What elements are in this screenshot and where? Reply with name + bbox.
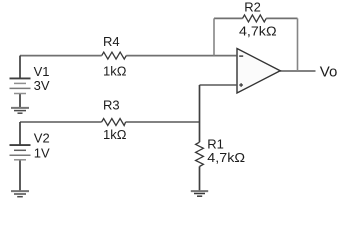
- svg-text:V2: V2: [34, 131, 50, 146]
- wire feedback top right segment: [266, 17, 297, 19]
- wire op-amp non-inverting input horizontal: [200, 84, 237, 86]
- svg-text:1kΩ: 1kΩ: [103, 63, 127, 78]
- battery V2: [10, 145, 31, 160]
- svg-text:R2: R2: [244, 0, 261, 15]
- ground below R1: [191, 191, 208, 196]
- svg-text:1V: 1V: [34, 146, 50, 161]
- wire output to Vo: [280, 70, 316, 72]
- wire feedback left vertical: [213, 18, 215, 55]
- wire top rail V1 to R4: [20, 55, 102, 57]
- wire R1 bottom lead to ground: [199, 166, 201, 190]
- wire bottom rail V2 to R3: [20, 121, 102, 123]
- wire feedback right vertical: [297, 18, 299, 71]
- battery V1: [10, 78, 31, 93]
- svg-text:R4: R4: [103, 34, 120, 49]
- resistor R4: [102, 52, 127, 59]
- wire V1 top lead: [19, 56, 21, 78]
- op-amp U1: [237, 49, 280, 94]
- svg-text:3V: 3V: [34, 78, 50, 93]
- ground below V1: [11, 108, 29, 113]
- ground below V2: [11, 191, 29, 197]
- resistor R3: [102, 119, 126, 126]
- wire V1 bottom lead: [19, 94, 21, 108]
- svg-text:4,7kΩ: 4,7kΩ: [207, 150, 245, 165]
- svg-text:R3: R3: [103, 98, 120, 113]
- wire feedback top left segment: [214, 17, 243, 19]
- wire R3 to node junction: [126, 121, 200, 123]
- resistor R1: [196, 142, 204, 166]
- svg-text:4,7kΩ: 4,7kΩ: [239, 24, 277, 39]
- wire V2 bottom lead: [19, 160, 21, 191]
- resistor R2: [243, 15, 267, 22]
- wire R4 to op-amp inverting input: [126, 55, 236, 57]
- wire non-inverting vertical down to R1: [199, 85, 201, 142]
- svg-text:1kΩ: 1kΩ: [103, 127, 127, 142]
- svg-text:V1: V1: [34, 64, 50, 79]
- svg-text:Vo: Vo: [320, 64, 338, 81]
- wire V2 top lead: [19, 122, 21, 145]
